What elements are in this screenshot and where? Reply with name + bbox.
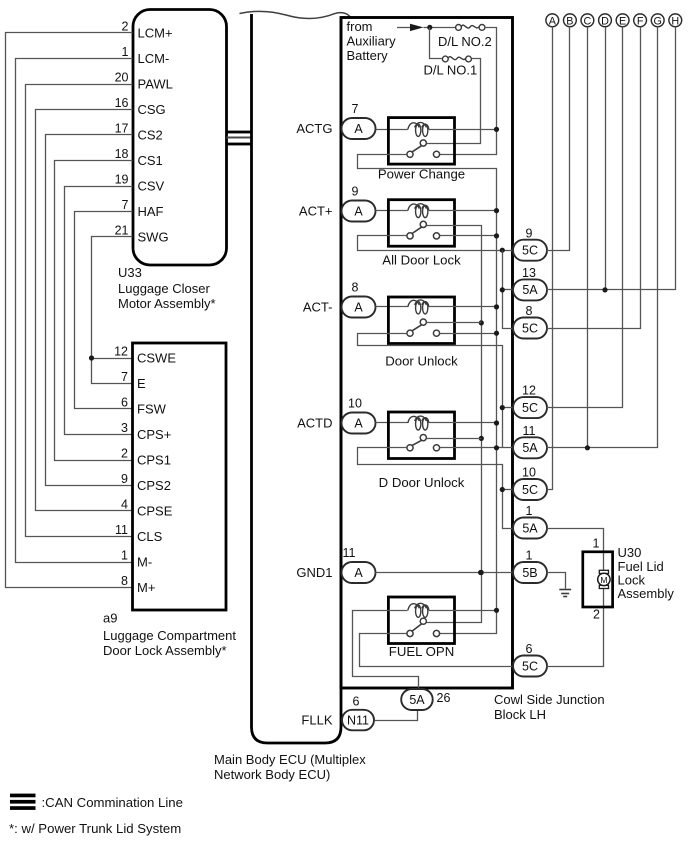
junction dot node C <box>585 445 590 450</box>
wire fuse D/L NO.2 to coil bus <box>440 28 497 155</box>
battery feed arrow <box>397 27 410 29</box>
wire D Door Unlock left contact to connector 5C pin 10 and 5A pin 1 <box>358 448 513 529</box>
svg-text:5C: 5C <box>522 321 538 335</box>
wire ACTG to Power Change coil <box>376 129 408 131</box>
svg-text:Auxiliary: Auxiliary <box>347 34 397 49</box>
junction dot battery feed <box>427 25 432 30</box>
svg-text:A: A <box>354 300 363 314</box>
svg-text:11: 11 <box>523 424 536 438</box>
svg-text:7: 7 <box>121 370 128 384</box>
wire ACT+ to All Door Lock coil <box>376 210 408 212</box>
wire U33 CSV to a9 CPS+ <box>65 187 133 435</box>
svg-text:2: 2 <box>593 608 600 622</box>
harness node B <box>564 14 577 27</box>
connector 5C pin 10 oval <box>513 479 547 500</box>
CAN communication line between U33 and Main Body ECU <box>227 131 252 134</box>
svg-text:M: M <box>600 575 607 585</box>
wire D Door Unlock right contact to connector 5A pin 11 <box>440 447 513 449</box>
junction dot GND1 pivot bus <box>478 570 483 575</box>
junction dot bus DDU coil <box>494 420 499 425</box>
wire fuse D/L NO.1 to Power Change pivot <box>427 59 481 144</box>
wire FLLK N11 to 5A-26 <box>375 711 418 721</box>
junction dot coil bus Power Change <box>494 127 499 132</box>
wire branch to 5A pin13 and 5C pin8 <box>503 251 513 329</box>
svg-text:ACT-: ACT- <box>303 300 333 315</box>
relay All Door Lock coil <box>408 204 420 211</box>
svg-text:5C: 5C <box>522 659 538 673</box>
svg-text:Door Lock Assembly*: Door Lock Assembly* <box>103 643 227 658</box>
wire FUEL OPN coil feed from 5A-26 <box>353 611 419 689</box>
svg-text:6: 6 <box>121 396 128 410</box>
svg-text:12: 12 <box>522 384 536 398</box>
junction dot bus DU contact <box>494 331 499 336</box>
junction dot bus DU coil <box>494 304 499 309</box>
wire U33 CS1 to a9 CPS1 <box>55 161 133 461</box>
wire 5C9 to node B <box>547 27 570 251</box>
svg-text:CLS: CLS <box>137 529 163 544</box>
svg-text:Motor Assembly*: Motor Assembly* <box>118 296 216 311</box>
connector 5C pin 6 oval <box>513 656 547 677</box>
svg-text:Main Body ECU (Multiplex: Main Body ECU (Multiplex <box>214 752 366 767</box>
harness node G <box>651 14 664 27</box>
wire GND1 to connector 5B pin 1 <box>376 572 514 574</box>
junction dot bus FUEL coil <box>494 608 499 613</box>
wire 5A11 to nodes C and G <box>547 27 658 448</box>
svg-text:N11: N11 <box>347 713 369 727</box>
wire 5A1 to U30 pin 1 <box>547 529 604 571</box>
svg-text:8: 8 <box>526 304 533 318</box>
svg-text:ACTG: ACTG <box>296 121 332 136</box>
svg-text:1: 1 <box>526 504 533 518</box>
svg-text:9: 9 <box>526 226 533 240</box>
svg-text:6: 6 <box>353 695 360 709</box>
svg-text:CS1: CS1 <box>138 153 163 168</box>
svg-text:D: D <box>601 15 609 27</box>
svg-text:A: A <box>354 566 363 580</box>
svg-text:SWG: SWG <box>138 230 169 245</box>
svg-text:5A: 5A <box>522 283 538 297</box>
connector 5A pin 13 oval <box>513 279 547 300</box>
wire U33 CSG to a9 CPSE <box>36 110 133 511</box>
svg-text:Lock: Lock <box>618 572 646 587</box>
connector 5C pin 9 oval <box>513 240 547 261</box>
svg-text:5A: 5A <box>522 441 538 455</box>
svg-text:ACTD: ACTD <box>297 416 332 431</box>
svg-text:5A: 5A <box>409 693 425 707</box>
svg-text:Luggage Closer: Luggage Closer <box>118 281 210 296</box>
junction dot bus DDU contact <box>494 445 499 450</box>
svg-text:All Door Lock: All Door Lock <box>382 253 461 268</box>
svg-text:a9: a9 <box>103 611 117 626</box>
harness node F <box>634 14 647 27</box>
svg-text:11: 11 <box>115 523 128 537</box>
svg-text:7: 7 <box>122 198 129 212</box>
junction dot 5C9 branch <box>500 248 505 253</box>
svg-text:1: 1 <box>526 549 533 563</box>
svg-text:Battery: Battery <box>347 48 389 63</box>
junction dot 5C12 branch <box>500 405 505 410</box>
Cowl Side Junction Block LH box <box>341 18 513 689</box>
wire U33 LCM+ to a9 M+ <box>6 33 133 588</box>
wire Power Change left contact loop to coil bus <box>358 155 497 634</box>
wire All Door Lock right contact to bus <box>440 235 497 237</box>
svg-text:CPS2: CPS2 <box>137 478 171 493</box>
svg-text:Network Body ECU): Network Body ECU) <box>214 767 330 782</box>
svg-text:2: 2 <box>121 447 128 461</box>
connector 5A pin 1 oval <box>513 518 547 539</box>
svg-text:19: 19 <box>115 173 129 187</box>
svg-text:D/L NO.2: D/L NO.2 <box>438 34 492 49</box>
svg-text:10: 10 <box>348 397 362 411</box>
svg-text:9: 9 <box>121 472 128 486</box>
wire ACTD to D Door Unlock coil <box>376 422 408 424</box>
svg-text:E: E <box>137 376 146 391</box>
svg-text:11: 11 <box>343 546 356 560</box>
svg-text:2: 2 <box>122 20 129 34</box>
svg-text:from: from <box>347 19 373 34</box>
relay FUEL OPN box <box>388 597 454 644</box>
junction dot node D <box>602 287 607 292</box>
relay Door Unlock switch <box>420 319 426 325</box>
CAN line legend symbol <box>10 794 36 798</box>
svg-text:FSW: FSW <box>137 402 167 417</box>
svg-text:ACT+: ACT+ <box>299 204 333 219</box>
relay D Door Unlock box <box>388 412 454 459</box>
svg-text:7: 7 <box>352 102 359 116</box>
svg-text:5C: 5C <box>522 483 538 497</box>
svg-text:13: 13 <box>522 266 536 280</box>
svg-text:1: 1 <box>122 45 129 59</box>
svg-text:U30: U30 <box>618 545 642 560</box>
wire Door Unlock pivot to pivot bus <box>426 322 481 324</box>
svg-text:18: 18 <box>115 147 129 161</box>
svg-text:HAF: HAF <box>138 204 164 219</box>
wire All Door Lock coil to bus <box>429 210 497 212</box>
svg-text:CPS+: CPS+ <box>137 427 171 442</box>
relay Power Change coil <box>408 123 420 130</box>
svg-text:C: C <box>584 15 592 27</box>
svg-text:Luggage Compartment: Luggage Compartment <box>103 628 236 643</box>
svg-text:5C: 5C <box>522 401 538 415</box>
wire All Door Lock pivot bus down <box>427 226 482 623</box>
relay FUEL OPN switch <box>420 618 426 624</box>
svg-text:16: 16 <box>115 96 129 110</box>
harness node E <box>616 14 629 27</box>
wire Power Change coil to bus <box>429 129 497 131</box>
svg-text:E: E <box>619 15 626 27</box>
junction dot 5A13 branch <box>500 287 505 292</box>
svg-text:A: A <box>354 416 363 430</box>
svg-text:12: 12 <box>114 345 128 359</box>
svg-text:D Door Unlock: D Door Unlock <box>379 475 465 490</box>
wire 5B to ground <box>547 573 566 589</box>
wire U33 SWG to a9 CSWE and E <box>92 237 133 384</box>
svg-text:3: 3 <box>121 421 128 435</box>
wire node A down to 5C10 <box>547 27 553 490</box>
svg-text:8: 8 <box>121 574 128 588</box>
connector 5C pin 12 oval <box>513 397 547 418</box>
svg-text:Block LH: Block LH <box>494 707 546 722</box>
wire D Door Unlock coil to bus <box>429 422 497 424</box>
relay D Door Unlock coil <box>408 416 420 423</box>
svg-text::CAN Commination Line: :CAN Commination Line <box>42 795 183 810</box>
svg-text:M+: M+ <box>137 580 155 595</box>
svg-text:A: A <box>354 204 363 218</box>
svg-text:Assembly: Assembly <box>618 586 675 601</box>
wire U33 HAF to a9 FSW <box>75 212 133 409</box>
connector 5C pin 8 oval <box>513 318 547 339</box>
U30 motor M <box>599 570 608 573</box>
relay FUEL OPN coil <box>408 604 420 611</box>
U30 Fuel Lid Lock Assembly box <box>583 552 613 607</box>
svg-text:5C: 5C <box>522 244 538 258</box>
harness node A <box>546 14 559 27</box>
relay Door Unlock box <box>388 297 454 344</box>
relay All Door Lock box <box>388 200 454 247</box>
wire ACT- to Door Unlock coil <box>376 306 408 308</box>
ECU torn top edge wavy line <box>240 11 351 18</box>
svg-text:10: 10 <box>522 466 536 480</box>
fuse D/L NO.2 <box>456 25 462 31</box>
relay Power Change switch <box>420 140 426 146</box>
svg-text:LCM+: LCM+ <box>138 26 173 41</box>
svg-text:CPS1: CPS1 <box>137 453 171 468</box>
Main Body ECU box <box>252 14 342 743</box>
svg-text:1: 1 <box>593 537 600 551</box>
svg-text:A: A <box>549 15 557 27</box>
svg-text:8: 8 <box>352 281 359 295</box>
svg-text:1: 1 <box>121 549 128 563</box>
harness node C <box>581 14 594 27</box>
svg-text:5B: 5B <box>522 566 537 580</box>
wire 5C12 to node E <box>547 27 623 408</box>
svg-text:B: B <box>566 15 573 27</box>
relay Door Unlock coil <box>408 300 420 307</box>
svg-text:21: 21 <box>115 224 129 238</box>
wire FUEL OPN left contact to connector 5C pin 6 <box>360 634 513 667</box>
wire Door Unlock right contact to bus <box>440 333 497 335</box>
svg-text:17: 17 <box>115 122 129 136</box>
connector 5A pin 26 oval <box>401 689 433 710</box>
harness node H <box>669 14 682 27</box>
svg-text:6: 6 <box>526 642 533 656</box>
svg-text:LCM-: LCM- <box>138 51 170 66</box>
svg-text:Door Unlock: Door Unlock <box>385 354 458 369</box>
wire D Door Unlock pivot to pivot bus <box>426 438 481 440</box>
junction dot bus ADL coil <box>494 208 499 213</box>
fuse D/L NO.1 <box>430 28 443 59</box>
wire U33 CS2 to a9 CPS2 <box>46 135 133 486</box>
connector a9 Luggage Compartment Door Lock Assembly box <box>133 343 227 610</box>
junction dot on CSWE wire <box>89 355 94 360</box>
relay All Door Lock switch <box>420 221 426 227</box>
svg-text:H: H <box>671 15 679 27</box>
svg-text:26: 26 <box>437 691 451 705</box>
svg-text:F: F <box>637 15 644 27</box>
svg-text:Cowl Side Junction: Cowl Side Junction <box>494 692 605 707</box>
svg-text:9: 9 <box>352 185 359 199</box>
svg-text:5A: 5A <box>522 521 538 535</box>
svg-text:CSWE: CSWE <box>137 351 176 366</box>
harness node D <box>599 14 612 27</box>
svg-text:GND1: GND1 <box>296 565 332 580</box>
junction dot 5C10 branch <box>500 487 505 492</box>
wire Door Unlock left contact to connector 5C pin 12 <box>358 334 503 448</box>
relay Power Change box <box>388 118 454 165</box>
wire 5A13 to nodes D and H <box>547 27 676 290</box>
svg-text:A: A <box>354 122 363 136</box>
ground symbol <box>559 589 571 591</box>
wire Door Unlock coil to bus <box>429 306 497 308</box>
svg-text:FLLK: FLLK <box>301 713 332 728</box>
connector U33 Luggage Closer Motor Assembly box <box>133 10 227 266</box>
junction dot bus ADL contact <box>494 233 499 238</box>
svg-text:4: 4 <box>121 498 128 512</box>
wire All Door Lock left contact to connector 5C pin 9 <box>358 236 513 251</box>
svg-text:CSG: CSG <box>138 102 166 117</box>
connector 5B pin 1 oval <box>513 562 547 583</box>
svg-text:FUEL OPN: FUEL OPN <box>389 644 454 659</box>
svg-text:*: w/ Power Trunk Lid System: *: w/ Power Trunk Lid System <box>9 821 181 836</box>
junction dots pivot bus <box>479 320 484 325</box>
wire FUEL OPN coil to bus <box>429 610 497 612</box>
wire U33 LCM- to a9 M- <box>16 59 133 563</box>
svg-text:CPSE: CPSE <box>137 504 173 519</box>
svg-text:CSV: CSV <box>138 179 165 194</box>
svg-text:U33: U33 <box>118 265 142 280</box>
svg-text:20: 20 <box>115 71 129 85</box>
svg-text:D/L NO.1: D/L NO.1 <box>424 63 478 78</box>
svg-text:PAWL: PAWL <box>138 77 173 92</box>
wire U33 PAWL to a9 CLS <box>26 85 133 537</box>
svg-text:G: G <box>654 15 662 27</box>
svg-text:M-: M- <box>137 555 152 570</box>
wire 5C8 to node F <box>547 27 641 329</box>
relay D Door Unlock switch <box>420 435 426 441</box>
svg-text:CS2: CS2 <box>138 128 163 143</box>
connector 5A pin 11 oval <box>513 437 547 458</box>
